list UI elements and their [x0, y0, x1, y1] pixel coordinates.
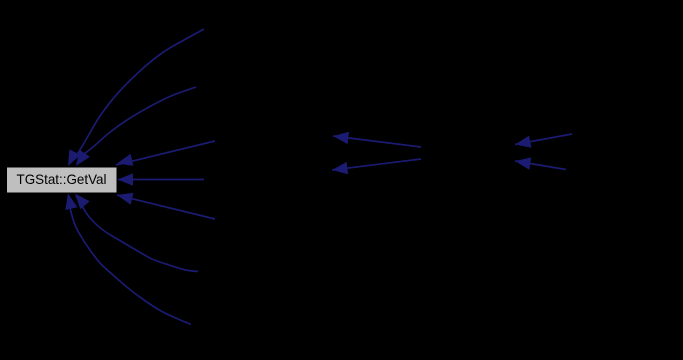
wire edge M2 mid pair lower [332, 159, 421, 170]
node TGStat::GetVal [7, 167, 118, 193]
wire edge E3 line from caller row3 [116, 141, 215, 165]
wire edge E1 curve from caller row1 to TGStat::GetVal [70, 29, 204, 163]
arrowhead E3 [117, 154, 134, 166]
wire edge E2 curve from caller row2 [77, 87, 196, 163]
arrowhead E7 [65, 194, 77, 211]
wire edge R1 right pair upper [515, 134, 572, 145]
arrowhead E4 [118, 173, 134, 185]
arrowhead E1 [68, 149, 81, 166]
wire edge E4 horizontal from caller row4 [118, 179, 204, 181]
wire edge R2 right pair lower [515, 161, 566, 170]
wire edge E7 curve from caller row7 [68, 196, 191, 325]
arrowhead R2 [515, 157, 531, 169]
arrowhead E2 [76, 150, 90, 166]
wire edge E5 line from caller row5 [117, 195, 215, 219]
svg-text:TGStat::GetVal: TGStat::GetVal [17, 171, 107, 187]
arrowhead M1 [333, 132, 349, 144]
wire edge M1 mid pair upper [333, 136, 421, 147]
arrowhead M2 [332, 162, 348, 174]
arrowhead E6 [75, 194, 90, 210]
arrowhead R1 [515, 136, 531, 148]
wire edge E6 curve from caller row6 [76, 196, 198, 272]
arrowhead E5 [117, 193, 134, 205]
